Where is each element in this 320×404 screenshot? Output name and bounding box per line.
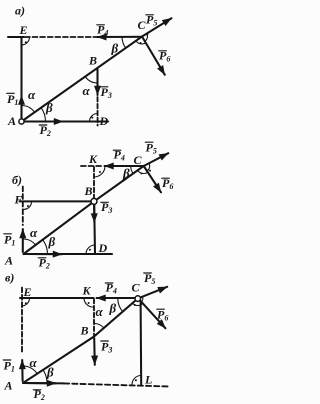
wire: diagonal rod A-B-C (diagram a) <box>22 37 143 122</box>
svg-text:B: B <box>80 324 89 338</box>
svg-text:P1: P1 <box>7 92 18 107</box>
angle beta at A (diagram a) <box>41 108 45 122</box>
svg-text:β: β <box>45 100 53 115</box>
svg-text:β: β <box>46 365 54 380</box>
angle alpha at A (diagram b) <box>24 239 36 245</box>
angle beta at A (diagram v) <box>43 370 47 383</box>
wire: dashed line E to C (diagram a) <box>25 36 97 38</box>
wire: bottom dashed line to past L (diagram v) <box>64 383 168 386</box>
svg-text:C: C <box>132 281 141 295</box>
vector P6 (diagram a) <box>142 37 165 75</box>
wire: bottom horizontal solid at A (diagram v) <box>23 382 64 384</box>
wire: dashed vertical K-B (diagram b) <box>93 167 95 198</box>
svg-text:α: α <box>83 83 91 98</box>
wire: left vertical AE (diagram a) <box>20 37 22 122</box>
angle alpha at A (diagram a) <box>22 106 35 113</box>
right angle mark at E (diagram v) <box>22 298 30 306</box>
svg-text:P1: P1 <box>4 233 15 248</box>
svg-text:D: D <box>99 114 109 128</box>
vector P6 (diagram v) <box>140 301 165 329</box>
right angle marks at C (diagram v) <box>133 303 143 305</box>
vector P5 (diagram v) <box>141 287 168 298</box>
right angle mark at E (diagram a) <box>22 37 30 45</box>
right angle mark at F (diagram b) <box>24 201 32 209</box>
vector P4 (diagram b) <box>105 165 144 167</box>
node A with pivot circle (diagram a) <box>19 119 24 124</box>
vector P3 (diagram v) <box>93 338 96 365</box>
svg-text:L: L <box>144 373 152 387</box>
svg-text:α: α <box>30 355 38 370</box>
wire: solid B to D (diagram b) <box>93 205 96 254</box>
svg-text:P1: P1 <box>4 359 15 374</box>
vector P1 (diagram a) <box>20 96 22 119</box>
right angle marks at C (diagram b) <box>138 170 148 173</box>
angle beta at A (diagram b) <box>43 240 48 254</box>
right angle mark at K (diagram v) <box>84 298 93 307</box>
wire: dashed B to D (diagram a) <box>97 97 99 126</box>
svg-text:α: α <box>96 304 104 319</box>
vector P6 (diagram b) <box>144 166 161 192</box>
angle alpha at A (diagram v) <box>23 366 37 374</box>
wire: top horizontal E-K (diagram v) <box>20 297 94 299</box>
wire: bottom horizontal A-D (diagram b) <box>24 253 113 255</box>
right angle mark at K (diagram b) <box>94 166 105 177</box>
svg-text:A: A <box>4 254 13 268</box>
svg-text:F: F <box>14 193 23 207</box>
vector P1 (diagram b) <box>22 229 24 252</box>
svg-text:E: E <box>23 285 32 299</box>
right angle mark at D (diagram a) <box>90 114 98 122</box>
svg-text:A: A <box>7 114 16 128</box>
svg-text:а): а) <box>15 4 25 18</box>
wire: dashed vertical A-F (diagram b) <box>22 187 24 226</box>
svg-text:б): б) <box>12 173 22 187</box>
vector P1 (diagram v) <box>21 360 23 381</box>
svg-text:C: C <box>134 153 143 167</box>
svg-text:P3: P3 <box>101 340 112 355</box>
angle alpha at B (diagram a) <box>85 77 97 83</box>
right angle marks at C (diagram a) <box>136 41 146 44</box>
vector P3 (diagram a) <box>96 69 98 95</box>
angle beta at C (diagram b) <box>131 166 133 174</box>
vector P5 (diagram a) <box>142 18 172 36</box>
wire: bottom horizontal AD (diagram a) <box>22 120 109 122</box>
svg-text:α: α <box>28 87 36 102</box>
wire: horizontal F to B (diagram b) <box>20 200 92 202</box>
vector P2 (diagram b) <box>25 253 62 255</box>
wire: dashed left segment at K (diagram b) <box>81 165 103 167</box>
wire: dashed vertical K-B (diagram v) <box>93 299 95 336</box>
vector P2 (diagram v) <box>24 382 56 384</box>
angle beta at C (diagram v) <box>118 299 123 312</box>
wire: vertical C-L (diagram v) <box>140 301 143 384</box>
svg-text:в): в) <box>5 271 14 285</box>
vector P5 (diagram b) <box>144 153 169 166</box>
angle alpha at B (diagram v) <box>94 323 104 327</box>
wire: top horizontal overshoot at E (diagram a) <box>8 36 24 38</box>
wire: diagonal rod A-B-C (diagram v) <box>23 299 138 384</box>
svg-text:α: α <box>30 225 38 240</box>
right angle mark at L (diagram v) <box>132 376 141 385</box>
vector P2 (diagram a) <box>24 120 63 122</box>
svg-text:β: β <box>109 301 117 316</box>
svg-text:K: K <box>88 152 98 166</box>
vector P4 (diagram a) <box>97 36 141 38</box>
svg-text:B: B <box>88 54 97 68</box>
svg-text:β: β <box>48 234 56 249</box>
wire: diagonal rod A-B-C (diagram b) <box>24 166 144 254</box>
svg-text:A: A <box>4 379 13 393</box>
svg-text:β: β <box>122 166 130 181</box>
svg-text:D: D <box>98 241 108 255</box>
vector P4 (diagram v) <box>97 297 137 299</box>
wire: dashed vertical E-A (diagram v) <box>21 288 23 355</box>
vector P3 (diagram b) <box>93 205 95 223</box>
svg-text:β: β <box>111 41 119 56</box>
svg-text:K: K <box>82 284 92 298</box>
svg-text:B: B <box>84 184 93 198</box>
right angle mark at D (diagram b) <box>86 245 95 254</box>
node B with pivot circle (diagram b) <box>91 198 97 204</box>
angle beta at C (diagram a) <box>122 37 126 49</box>
svg-text:E: E <box>19 23 28 37</box>
node C with pivot circle (diagram v) <box>135 296 141 302</box>
